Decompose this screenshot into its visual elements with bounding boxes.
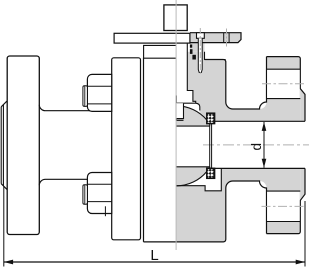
dimension d label xyxy=(249,143,264,151)
ball port top line xyxy=(176,125,209,127)
body section gray: raised face bottom xyxy=(300,168,305,200)
bottom stud bolt and nut xyxy=(83,172,112,213)
white notch between body and right flange (bottom) xyxy=(226,181,267,246)
right flange bolt hole (top) xyxy=(267,69,301,98)
gland bolt head xyxy=(197,33,205,39)
ball port bottom line xyxy=(176,166,209,168)
svg-text:d: d xyxy=(249,143,264,151)
white gap under handle bar right portion xyxy=(205,43,242,60)
white cavity: ball chamber, seat pockets and bore xyxy=(176,103,305,191)
bolt hole centerline (top) xyxy=(262,83,306,85)
packing rings (black) xyxy=(190,45,196,60)
ball lower half section (gray) xyxy=(176,167,211,186)
left flange xyxy=(7,56,39,235)
dimension L line xyxy=(4,260,305,265)
body top edge line (right of stem) xyxy=(205,60,226,103)
body section gray: stuffing box, hub and upper neck xyxy=(187,52,266,122)
stem top xyxy=(164,5,187,31)
handle bar bolt hole xyxy=(224,33,229,43)
ball lower silhouette arc xyxy=(177,172,207,186)
seat ring lower (checkered) xyxy=(207,168,215,178)
white notch between hub and right flange (top) xyxy=(226,50,267,109)
svg-text:L: L xyxy=(150,247,158,264)
dimension L extension line right xyxy=(304,201,306,267)
bottom nut washer face line xyxy=(104,206,106,216)
stem tang in ball xyxy=(176,103,183,120)
body section gray: gland block xyxy=(190,43,205,52)
seat face double line xyxy=(210,124,212,169)
ball upper half section (gray) xyxy=(176,106,211,126)
right flange bolt hole (bottom) xyxy=(267,191,301,221)
handle bar sectioned outline xyxy=(190,33,241,43)
body column left half (outside view) xyxy=(144,58,177,242)
dimension d arrow xyxy=(262,122,267,168)
lower ball pocket and seat pocket xyxy=(176,168,221,190)
dimension L label xyxy=(150,247,158,264)
stem axis centerline xyxy=(175,0,177,250)
top stud bolt and nut xyxy=(83,74,112,111)
bore bottom line xyxy=(209,167,306,169)
stuffing box steps xyxy=(187,43,195,104)
cap flange column xyxy=(112,58,141,240)
right flange outline xyxy=(267,57,306,234)
bore top line xyxy=(209,120,306,122)
pipe axis centerline xyxy=(203,144,309,146)
body section gray: right flange xyxy=(267,57,301,234)
white stem hole with stuffing steps xyxy=(176,43,196,104)
seat ring upper (checkered) xyxy=(207,113,215,123)
body section gray: lower body and lower neck xyxy=(176,168,266,242)
ball chamber ceiling and pocket wall xyxy=(176,96,200,121)
gland bolt shank xyxy=(198,38,202,72)
body section gray: raised face top xyxy=(300,89,305,122)
hub-neck fillet and neck top surface xyxy=(226,57,267,109)
handle bar hole centerline xyxy=(226,29,228,49)
ball upper silhouette arc xyxy=(177,106,207,120)
bolt hole centerline (bottom) xyxy=(262,205,305,207)
left flange raised face edges xyxy=(1,101,7,190)
body bottom edge and lower notch outline xyxy=(176,181,266,242)
neck between left flange and body xyxy=(39,105,111,186)
body section gray: handle bar sectioned part xyxy=(190,33,241,43)
handle bar left (outside view) xyxy=(114,33,190,43)
dimension L extension line left xyxy=(3,186,5,267)
stem mounting boss (outside view) xyxy=(144,45,177,58)
gland bolt axis centerline xyxy=(199,28,201,76)
